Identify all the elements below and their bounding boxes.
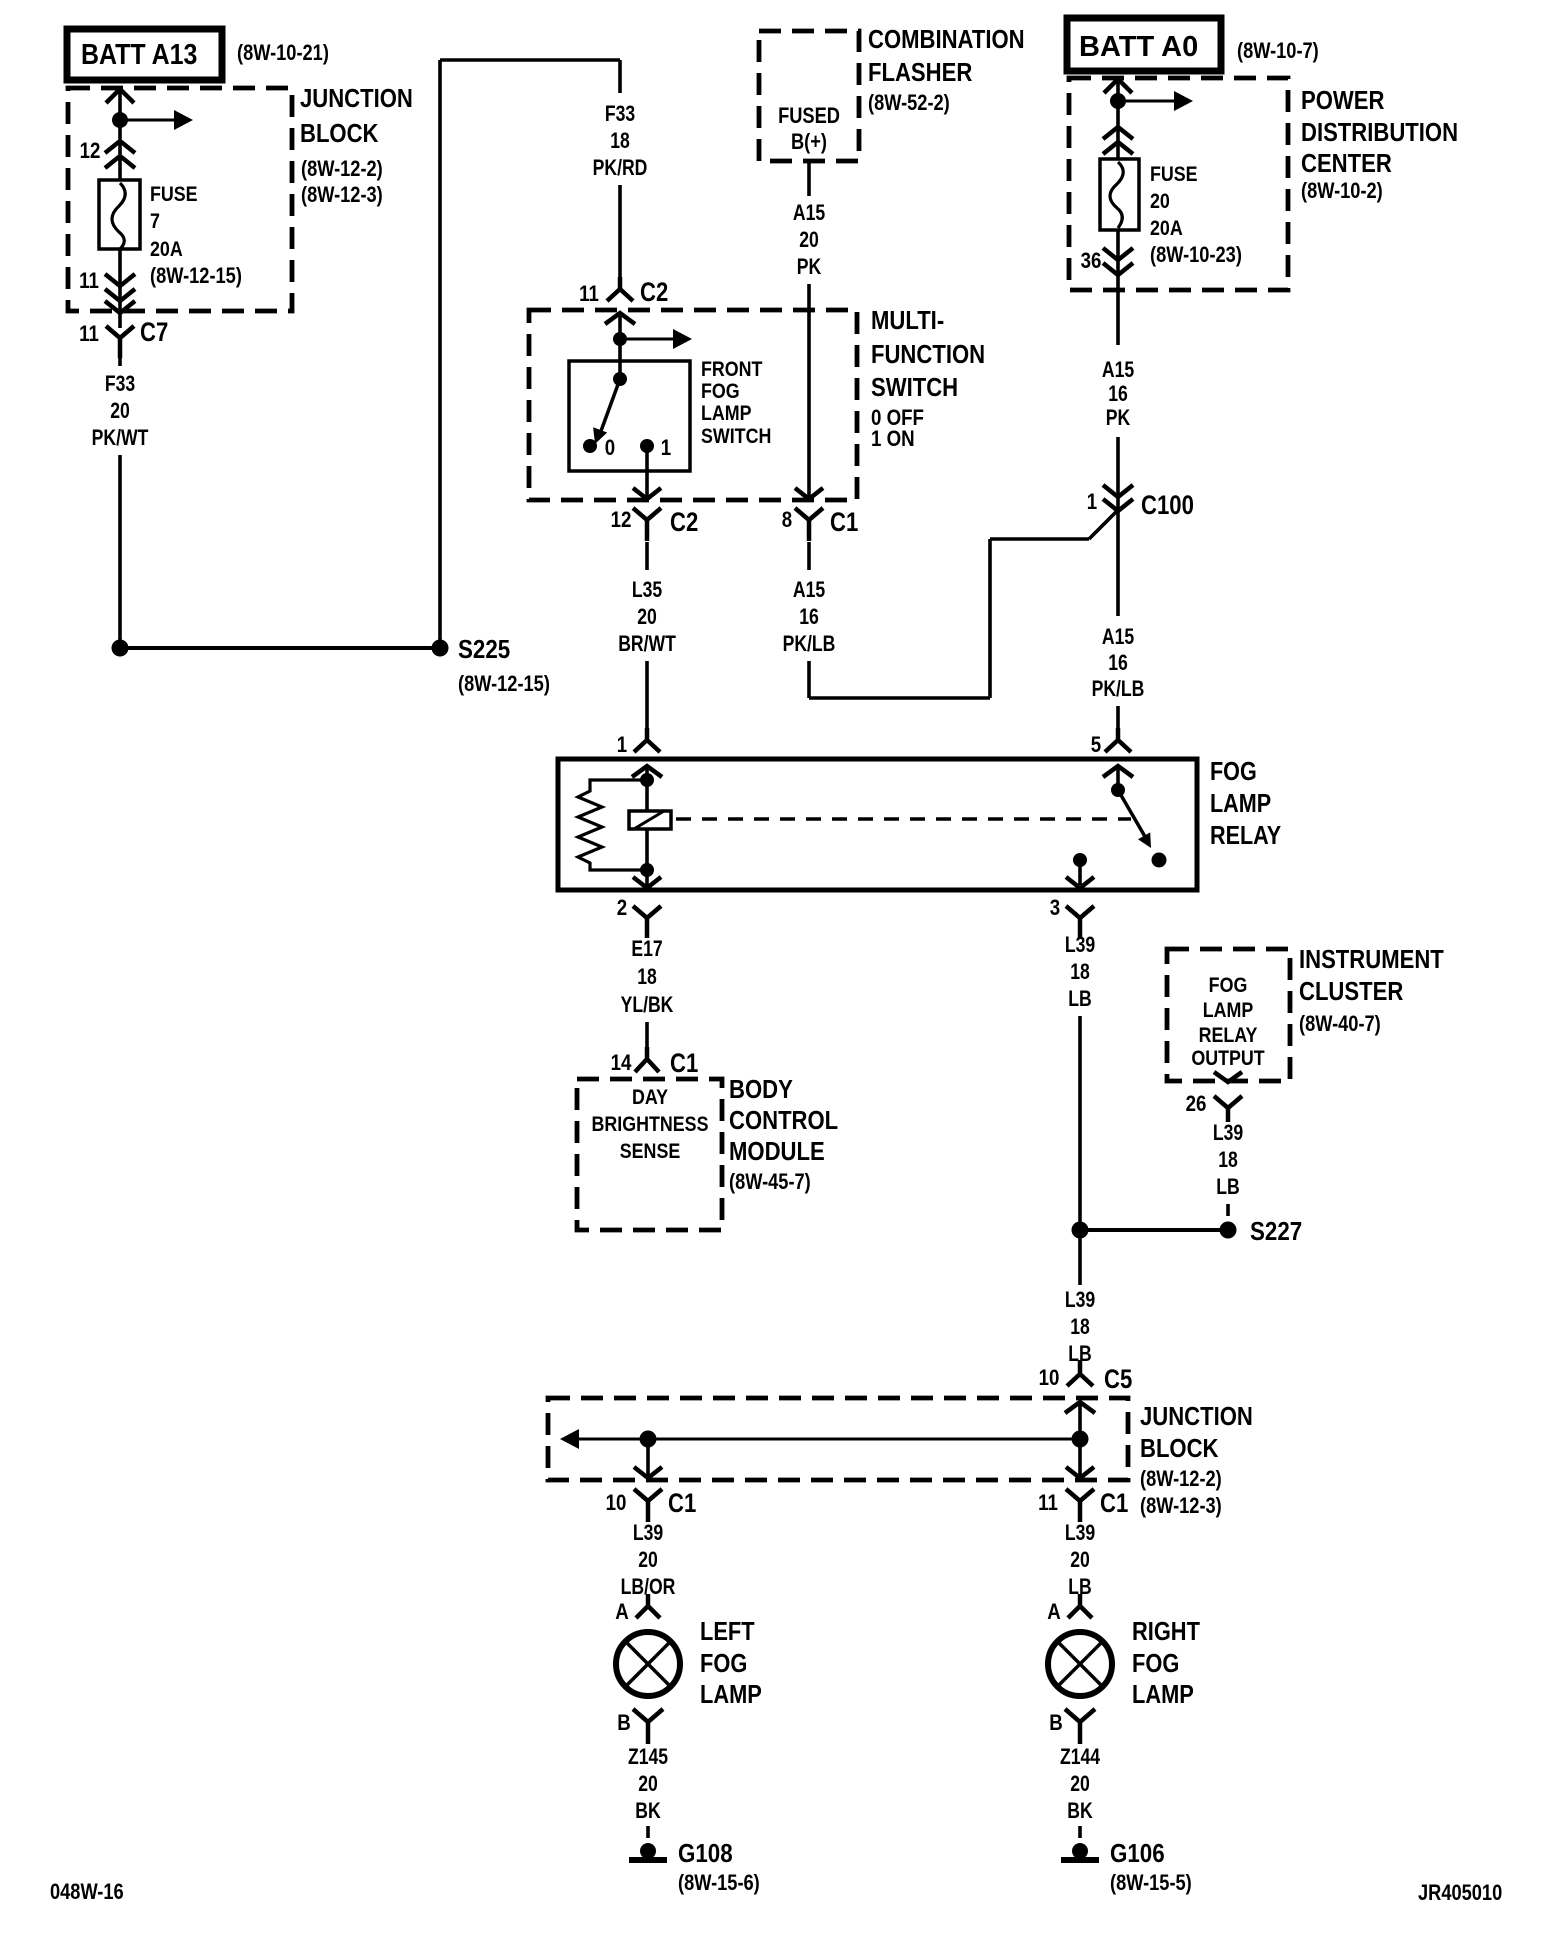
svg-text:FOG: FOG (700, 1649, 747, 1678)
svg-text:RIGHT: RIGHT (1132, 1617, 1200, 1646)
svg-text:2: 2 (617, 897, 627, 921)
svg-text:L39: L39 (1213, 1121, 1243, 1145)
svg-text:CLUSTER: CLUSTER (1299, 977, 1403, 1006)
svg-text:F33: F33 (605, 102, 635, 126)
svg-text:LB: LB (1068, 987, 1091, 1011)
svg-text:18: 18 (1070, 960, 1090, 984)
svg-text:(8W-45-7): (8W-45-7) (729, 1171, 811, 1195)
svg-text:10: 10 (1039, 1367, 1060, 1391)
svg-text:B: B (617, 1712, 631, 1736)
svg-text:FOG: FOG (701, 380, 740, 404)
svg-text:L39: L39 (1065, 1288, 1095, 1312)
svg-text:FUSE: FUSE (150, 183, 198, 207)
svg-text:BK: BK (1067, 1799, 1093, 1823)
svg-text:7: 7 (150, 210, 160, 234)
svg-text:MULTI-: MULTI- (871, 306, 944, 335)
svg-text:(8W-12-2): (8W-12-2) (1140, 1468, 1222, 1492)
svg-text:(8W-40-7): (8W-40-7) (1299, 1013, 1381, 1037)
svg-text:(8W-12-3): (8W-12-3) (1140, 1495, 1222, 1519)
svg-text:16: 16 (1108, 382, 1128, 406)
svg-text:20: 20 (1070, 1772, 1090, 1796)
svg-text:OUTPUT: OUTPUT (1191, 1047, 1264, 1071)
svg-text:14: 14 (611, 1052, 632, 1076)
svg-text:LEFT: LEFT (700, 1617, 755, 1646)
svg-text:L39: L39 (633, 1521, 663, 1545)
svg-text:BK: BK (635, 1799, 661, 1823)
svg-text:20: 20 (799, 228, 819, 252)
svg-text:BLOCK: BLOCK (1140, 1434, 1219, 1463)
svg-text:F33: F33 (105, 372, 135, 396)
svg-text:3: 3 (1050, 897, 1060, 921)
svg-text:10: 10 (606, 1492, 627, 1516)
svg-text:BLOCK: BLOCK (300, 119, 379, 148)
svg-text:20: 20 (638, 1548, 658, 1572)
svg-text:SWITCH: SWITCH (871, 373, 958, 402)
svg-text:1: 1 (661, 437, 671, 461)
svg-text:11: 11 (79, 323, 99, 347)
svg-text:FUNCTION: FUNCTION (871, 340, 985, 369)
svg-text:(8W-10-23): (8W-10-23) (1150, 244, 1242, 268)
svg-text:BATT A13: BATT A13 (81, 38, 197, 70)
svg-text:A: A (1047, 1601, 1061, 1625)
svg-text:(8W-15-5): (8W-15-5) (1110, 1872, 1192, 1896)
svg-text:C1: C1 (668, 1489, 697, 1519)
svg-text:(8W-10-21): (8W-10-21) (237, 42, 329, 66)
svg-text:DISTRIBUTION: DISTRIBUTION (1301, 118, 1458, 147)
svg-text:FOG: FOG (1209, 974, 1248, 998)
svg-text:0: 0 (605, 437, 615, 461)
svg-text:20: 20 (110, 399, 130, 423)
svg-text:11: 11 (579, 283, 599, 307)
svg-text:YL/BK: YL/BK (621, 993, 674, 1017)
svg-text:18: 18 (610, 129, 630, 153)
svg-text:BRIGHTNESS: BRIGHTNESS (592, 1113, 709, 1137)
svg-text:Z145: Z145 (628, 1745, 668, 1769)
svg-text:C1: C1 (1100, 1489, 1129, 1519)
svg-text:16: 16 (1108, 651, 1128, 675)
svg-text:SENSE: SENSE (620, 1140, 680, 1164)
svg-text:048W-16: 048W-16 (50, 1881, 124, 1905)
svg-text:DAY: DAY (632, 1086, 668, 1110)
svg-text:20: 20 (637, 605, 657, 629)
svg-text:(8W-12-3): (8W-12-3) (301, 184, 383, 208)
svg-text:26: 26 (1186, 1093, 1207, 1117)
svg-text:POWER: POWER (1301, 86, 1384, 115)
svg-text:FUSED: FUSED (778, 105, 840, 129)
svg-text:B(+): B(+) (791, 131, 827, 155)
svg-text:JR405010: JR405010 (1418, 1882, 1502, 1906)
svg-text:LB: LB (1216, 1175, 1239, 1199)
svg-text:LAMP: LAMP (1132, 1680, 1194, 1709)
svg-text:Z144: Z144 (1060, 1745, 1100, 1769)
svg-text:5: 5 (1091, 734, 1101, 758)
svg-text:FOG: FOG (1132, 1649, 1179, 1678)
svg-text:C1: C1 (670, 1049, 699, 1079)
svg-text:BATT A0: BATT A0 (1079, 31, 1198, 63)
svg-text:G106: G106 (1110, 1839, 1165, 1868)
svg-text:E17: E17 (631, 937, 662, 961)
svg-text:JUNCTION: JUNCTION (1140, 1402, 1253, 1431)
svg-text:11: 11 (79, 270, 99, 294)
svg-text:18: 18 (637, 965, 657, 989)
svg-text:A15: A15 (793, 201, 825, 225)
svg-text:RELAY: RELAY (1199, 1024, 1258, 1048)
svg-text:S225: S225 (458, 635, 510, 664)
svg-text:S227: S227 (1250, 1217, 1302, 1246)
svg-text:20A: 20A (150, 238, 183, 262)
svg-text:PK/LB: PK/LB (783, 632, 836, 656)
svg-text:(8W-12-15): (8W-12-15) (458, 673, 550, 697)
svg-text:12: 12 (80, 140, 101, 164)
svg-text:C2: C2 (640, 278, 668, 308)
svg-text:CONTROL: CONTROL (729, 1106, 838, 1135)
svg-text:C100: C100 (1141, 491, 1194, 521)
svg-text:B: B (1049, 1712, 1063, 1736)
svg-text:A15: A15 (1102, 625, 1134, 649)
svg-text:12: 12 (611, 509, 632, 533)
svg-text:L39: L39 (1065, 933, 1095, 957)
svg-text:BODY: BODY (729, 1075, 793, 1104)
svg-text:JUNCTION: JUNCTION (300, 84, 413, 113)
svg-text:16: 16 (799, 605, 819, 629)
svg-text:11: 11 (1038, 1492, 1058, 1516)
svg-text:20: 20 (638, 1772, 658, 1796)
svg-text:20A: 20A (1150, 217, 1183, 241)
svg-text:20: 20 (1070, 1548, 1090, 1572)
svg-text:C2: C2 (670, 508, 698, 538)
svg-text:18: 18 (1218, 1148, 1238, 1172)
svg-text:(8W-12-2): (8W-12-2) (301, 158, 383, 182)
svg-text:BR/WT: BR/WT (618, 632, 676, 656)
svg-text:(8W-10-2): (8W-10-2) (1301, 180, 1383, 204)
svg-text:(8W-12-15): (8W-12-15) (150, 265, 242, 289)
svg-text:A15: A15 (1102, 358, 1134, 382)
svg-text:1: 1 (617, 734, 627, 758)
svg-text:PK: PK (797, 255, 822, 279)
svg-text:(8W-15-6): (8W-15-6) (678, 1872, 760, 1896)
svg-text:PK/WT: PK/WT (92, 426, 149, 450)
svg-text:(8W-10-7): (8W-10-7) (1237, 40, 1319, 64)
svg-text:8: 8 (782, 509, 792, 533)
svg-text:MODULE: MODULE (729, 1137, 825, 1166)
svg-text:CENTER: CENTER (1301, 149, 1392, 178)
svg-text:20: 20 (1150, 190, 1170, 214)
svg-text:LAMP: LAMP (1210, 789, 1271, 818)
svg-text:36: 36 (1081, 250, 1102, 274)
svg-text:C7: C7 (140, 318, 168, 348)
svg-text:LAMP: LAMP (701, 402, 752, 426)
svg-text:LAMP: LAMP (1203, 999, 1254, 1023)
svg-text:G108: G108 (678, 1839, 733, 1868)
svg-text:C1: C1 (830, 508, 859, 538)
svg-text:(8W-52-2): (8W-52-2) (868, 92, 950, 116)
svg-text:FOG: FOG (1210, 757, 1257, 786)
svg-text:A: A (615, 1601, 629, 1625)
svg-text:INSTRUMENT: INSTRUMENT (1299, 945, 1444, 974)
svg-text:FLASHER: FLASHER (868, 58, 972, 87)
svg-text:FUSE: FUSE (1150, 163, 1198, 187)
svg-text:PK: PK (1106, 406, 1131, 430)
svg-text:1 ON: 1 ON (871, 428, 915, 452)
svg-text:L35: L35 (632, 578, 662, 602)
svg-text:PK/LB: PK/LB (1092, 677, 1145, 701)
svg-text:18: 18 (1070, 1315, 1090, 1339)
svg-text:L39: L39 (1065, 1521, 1095, 1545)
svg-text:RELAY: RELAY (1210, 821, 1281, 850)
svg-text:A15: A15 (793, 578, 825, 602)
svg-text:FRONT: FRONT (701, 358, 763, 382)
svg-text:1: 1 (1087, 491, 1097, 515)
svg-text:LAMP: LAMP (700, 1680, 762, 1709)
svg-text:C5: C5 (1104, 1365, 1133, 1395)
svg-text:PK/RD: PK/RD (593, 156, 648, 180)
svg-text:SWITCH: SWITCH (701, 425, 771, 449)
svg-text:COMBINATION: COMBINATION (868, 25, 1025, 54)
